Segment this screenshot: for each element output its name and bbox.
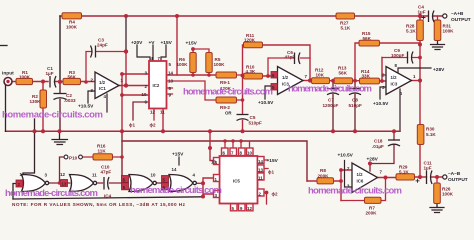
svg-text:5.1K: 5.1K	[426, 132, 436, 137]
svg-text:+15V: +15V	[172, 152, 184, 158]
svg-text:IC1: IC1	[99, 86, 106, 91]
svg-text:11: 11	[160, 110, 165, 115]
svg-text:100K: 100K	[443, 29, 455, 34]
svg-text:OUTPUT: OUTPUT	[448, 177, 468, 183]
svg-text:–A+B: –A+B	[451, 11, 464, 17]
svg-text:OR: OR	[225, 111, 232, 116]
svg-text:24pF: 24pF	[97, 43, 108, 48]
svg-text:1/2: 1/2	[391, 75, 398, 80]
svg-text:14: 14	[258, 159, 263, 164]
svg-text:R9-2: R9-2	[220, 105, 230, 110]
svg-text:130K: 130K	[30, 99, 42, 104]
svg-text:1/2: 1/2	[282, 75, 289, 80]
svg-text:–A–B: –A–B	[448, 171, 461, 177]
svg-text:IC2: IC2	[153, 83, 160, 88]
svg-text:56K: 56K	[68, 75, 77, 80]
svg-text:+20V: +20V	[131, 40, 143, 46]
svg-text:10: 10	[151, 173, 156, 178]
svg-text:+10.5V: +10.5V	[373, 101, 389, 107]
svg-text:510pF: 510pF	[349, 103, 362, 108]
svg-text:10: 10	[142, 92, 147, 97]
svg-text:IC3: IC3	[391, 82, 398, 87]
svg-text:100K: 100K	[177, 62, 189, 67]
svg-text:1/2: 1/2	[99, 80, 106, 85]
svg-text:IC6: IC6	[357, 179, 364, 184]
svg-text:56K: 56K	[363, 36, 372, 41]
svg-text:homemade-circuits.com: homemade-circuits.com	[5, 188, 98, 199]
svg-text:homemade-circuits.com: homemade-circuits.com	[183, 87, 273, 98]
svg-text:1µF: 1µF	[424, 166, 432, 171]
svg-text:100K: 100K	[442, 192, 454, 197]
svg-text:13: 13	[62, 182, 67, 187]
svg-text:ϕ1: ϕ1	[268, 170, 274, 175]
svg-text:100pF: 100pF	[391, 53, 404, 58]
svg-text:200K: 200K	[318, 174, 330, 179]
svg-text:OUTPUT: OUTPUT	[451, 17, 471, 23]
svg-text:+10.5V: +10.5V	[258, 100, 274, 106]
svg-text:1200pF: 1200pF	[323, 103, 339, 108]
svg-text:5.1K: 5.1K	[406, 29, 416, 34]
svg-text:R30: R30	[426, 127, 435, 132]
svg-text:ϕ2: ϕ2	[272, 192, 278, 197]
svg-text:11: 11	[92, 173, 97, 178]
svg-text:+15V: +15V	[161, 40, 173, 46]
svg-text:10K: 10K	[316, 73, 325, 78]
svg-text:Input: Input	[2, 71, 14, 77]
svg-text:12: 12	[247, 206, 252, 211]
svg-text:IC5: IC5	[233, 179, 240, 184]
svg-text:+V: +V	[149, 40, 156, 46]
svg-text:P10: P10	[69, 156, 78, 161]
svg-text:12: 12	[150, 110, 155, 115]
svg-text:homemade-circuits.com: homemade-circuits.com	[308, 186, 402, 197]
svg-text:NOTE: FOR R VALUES SHOWN, 5ms: NOTE: FOR R VALUES SHOWN, 5ms OR LESS, –…	[12, 202, 186, 207]
svg-text:ϕ2: ϕ2	[150, 123, 156, 128]
svg-text:C5: C5	[250, 115, 256, 120]
svg-text:C8: C8	[352, 98, 358, 103]
svg-text:100K: 100K	[214, 62, 226, 67]
svg-text:homemade-circuits.com: homemade-circuits.com	[130, 185, 222, 196]
svg-text:.0033: .0033	[64, 98, 76, 103]
svg-text:5.1K: 5.1K	[341, 26, 351, 31]
svg-text:100K: 100K	[19, 75, 31, 80]
svg-text:4.3K: 4.3K	[246, 69, 256, 74]
svg-text:1/2: 1/2	[357, 172, 364, 177]
svg-text:+15V: +15V	[267, 158, 279, 164]
svg-text:11K: 11K	[98, 149, 107, 154]
svg-text:5.1K: 5.1K	[399, 170, 409, 175]
svg-text:11: 11	[258, 176, 263, 181]
svg-text:ϕ1: ϕ1	[129, 123, 135, 128]
svg-text:IC4: IC4	[104, 194, 112, 199]
svg-text:+28V: +28V	[367, 157, 379, 163]
svg-text:12: 12	[60, 172, 65, 177]
svg-text:1µF: 1µF	[46, 71, 54, 76]
svg-text:33K: 33K	[362, 74, 371, 79]
svg-text:R8: R8	[320, 168, 326, 173]
svg-text:43pF: 43pF	[285, 55, 296, 60]
svg-text:100K: 100K	[66, 25, 78, 30]
svg-text:47pF: 47pF	[101, 170, 112, 175]
svg-text:510pF: 510pF	[249, 121, 262, 126]
svg-text:200K: 200K	[366, 211, 378, 216]
svg-text:14: 14	[168, 71, 173, 76]
svg-text:10: 10	[247, 151, 252, 156]
svg-text:13: 13	[168, 79, 173, 84]
svg-text:1µF: 1µF	[418, 10, 426, 15]
svg-text:+15V: +15V	[186, 41, 198, 47]
svg-text:C18: C18	[374, 139, 383, 144]
svg-text:R9-1: R9-1	[220, 80, 230, 85]
svg-text:.01µF: .01µF	[372, 144, 384, 149]
svg-text:56K: 56K	[339, 71, 348, 76]
svg-text:13: 13	[258, 168, 263, 173]
svg-text:+28V: +28V	[433, 67, 445, 73]
svg-text:C7: C7	[328, 98, 334, 103]
svg-text:homemade-circuits.com: homemade-circuits.com	[2, 110, 103, 121]
svg-text:+10.5V: +10.5V	[338, 153, 354, 159]
svg-text:homemade-circuits.com: homemade-circuits.com	[288, 84, 372, 95]
svg-text:14: 14	[172, 167, 177, 172]
svg-text:120K: 120K	[244, 38, 256, 43]
